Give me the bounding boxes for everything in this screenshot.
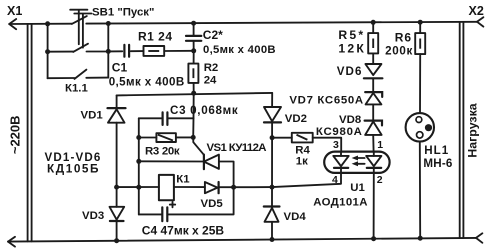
junction dot VD5 right	[231, 185, 236, 190]
wire R2 leads	[193, 51, 195, 93]
switch SB1 actuator	[70, 10, 91, 48]
svg-text:C1: C1	[112, 61, 128, 75]
terminal X2 fork	[477, 17, 483, 26]
junction dot	[106, 21, 111, 26]
svg-text:К1.1: К1.1	[65, 83, 88, 95]
svg-text:VD3: VD3	[82, 210, 104, 222]
neon lamp HL1	[406, 113, 434, 141]
svg-text:X2: X2	[469, 4, 484, 18]
svg-text:VD2: VD2	[285, 113, 307, 125]
svg-text:VD7 КС650А: VD7 КС650А	[289, 94, 363, 106]
svg-text:C4 47мк x 25В: C4 47мк x 25В	[142, 223, 225, 237]
wire right load double line	[460, 22, 464, 238]
svg-text:12К: 12К	[338, 41, 366, 55]
junction dot K1 row x=138.8	[136, 185, 141, 190]
svg-text:VD4: VD4	[284, 211, 307, 223]
wire row2	[48, 50, 194, 53]
svg-text:R3 20к: R3 20к	[145, 146, 180, 158]
junction dot R5 top	[371, 20, 376, 25]
svg-text:~220В: ~220В	[8, 115, 23, 154]
svg-text:R2: R2	[204, 62, 219, 74]
svg-text:X1: X1	[7, 4, 22, 18]
svg-text:C2*: C2*	[203, 28, 223, 42]
junction dot R3 left	[136, 135, 141, 140]
wire K1 row	[117, 186, 272, 188]
junction dot mid rail	[191, 91, 196, 96]
wire lamp bottom	[419, 142, 421, 239]
junction dot VS1 row left	[136, 159, 141, 164]
junction dot R4 tap	[270, 135, 275, 140]
svg-text:R1 24: R1 24	[138, 30, 173, 44]
junction dot bridge left / K1 row	[114, 185, 119, 190]
terminal bottom-right fork	[476, 233, 482, 243]
junction dot R3 right	[191, 135, 196, 140]
wire VS1 row	[139, 161, 234, 187]
svg-text:КС980А: КС980А	[316, 126, 363, 138]
wire VD8 to U1 pin1	[372, 135, 374, 152]
terminal bottom-left arrow	[8, 237, 15, 247]
diode VD6	[365, 64, 381, 75]
resistor R6	[415, 33, 425, 54]
svg-text:C3 0,068мк: C3 0,068мк	[170, 104, 238, 117]
svg-text:SB1 "Пуск": SB1 "Пуск"	[92, 6, 154, 18]
svg-text:1: 1	[377, 139, 383, 151]
optocoupler U1 right diode	[373, 152, 375, 173]
wire C3 loop	[139, 117, 194, 119]
svg-text:3: 3	[333, 139, 339, 151]
diode VD2	[271, 93, 273, 107]
wire VD6-VD7	[372, 78, 374, 92]
zener VD8	[365, 121, 382, 126]
svg-text:VD8: VD8	[339, 114, 361, 126]
wire R6 to lamp	[419, 54, 421, 113]
wire VD1-VD3	[116, 123, 118, 207]
svg-text:HL1: HL1	[424, 144, 449, 157]
switch SB1 contact 2	[73, 44, 88, 52]
svg-text:R6: R6	[395, 30, 412, 44]
svg-text:МН-6: МН-6	[423, 157, 452, 170]
diode VD3	[110, 207, 125, 220]
lamp gas dot	[425, 124, 432, 131]
resistor R3	[156, 133, 176, 142]
wire mid rail	[117, 93, 273, 96]
node A vertical x=47	[47, 24, 49, 78]
thyristor VS1 gate wire	[193, 137, 204, 154]
junction dot	[191, 21, 196, 26]
wire R3 leads	[139, 136, 193, 138]
junction dot	[45, 21, 50, 26]
junction dot pin2 bottom	[371, 236, 376, 241]
svg-text:КД105Б: КД105Б	[47, 161, 100, 175]
lamp electrode top	[416, 117, 422, 123]
svg-text:К1: К1	[176, 174, 190, 186]
capacitor C4	[162, 207, 167, 221]
resistor R4	[292, 133, 313, 143]
wire bottom rail	[8, 238, 476, 242]
junction dot VD3 bottom	[114, 238, 119, 243]
terminal X1 arrow	[9, 19, 16, 29]
relay contact K1.1 wire loop	[48, 77, 109, 80]
relay coil K1	[159, 175, 174, 200]
wire U1 pin2	[373, 173, 375, 239]
diode VD5	[205, 182, 218, 193]
wire C2 branch vertical below mid rail	[192, 93, 195, 137]
wire R5-VD6	[372, 53, 374, 64]
optocoupler U1 left diode	[340, 152, 342, 173]
svg-text:Нагрузка: Нагрузка	[466, 103, 480, 157]
wire left mains double line	[28, 24, 32, 241]
capacitor C4 plus sign	[170, 202, 175, 207]
zener VD7	[365, 92, 382, 97]
thyristor VS1	[203, 155, 205, 170]
svg-text:VD5: VD5	[201, 198, 224, 210]
svg-text:АОД101А: АОД101А	[313, 196, 368, 208]
wire R5 top	[372, 22, 374, 33]
wire R6 top	[419, 22, 421, 33]
capacitor C1	[124, 45, 129, 57]
resistor R2	[188, 64, 198, 83]
diode VD1	[116, 95, 118, 107]
svg-text:1к: 1к	[296, 155, 308, 167]
capacitor C3	[163, 112, 168, 125]
svg-text:2: 2	[377, 174, 383, 186]
wire top rail	[9, 22, 477, 24]
relay contact K1.1 blade	[75, 70, 87, 79]
svg-text:24: 24	[204, 75, 217, 87]
svg-text:VD1: VD1	[81, 109, 104, 121]
svg-text:200к: 200к	[385, 45, 413, 58]
junction dot VD4 bottom	[270, 237, 275, 242]
junction dot lamp bottom	[418, 236, 423, 241]
svg-text:0,5мк x 400В: 0,5мк x 400В	[109, 76, 185, 89]
wire VD2-VD4	[271, 122, 273, 205]
wire C2 leads	[193, 23, 195, 51]
junction dot	[45, 49, 50, 54]
junction dot pin4 row	[270, 185, 275, 190]
diode VD4	[264, 205, 280, 207]
lamp electrode bottom	[417, 132, 423, 138]
svg-text:R5*: R5*	[338, 28, 365, 42]
wire left mid vertical x=138.8	[138, 118, 140, 214]
junction dot R6 top	[418, 20, 423, 25]
wire C4 loop	[139, 187, 234, 214]
wire R4 leads	[272, 138, 341, 152]
optocoupler U1 arrows	[355, 157, 364, 159]
optocoupler U1 body	[324, 152, 389, 173]
node B vertical x=108	[107, 24, 109, 78]
junction dot row2/C2	[191, 48, 196, 53]
switch SB1 contact 1	[72, 16, 87, 24]
capacitor C2	[186, 36, 201, 41]
wire VD7-VD8	[372, 104, 374, 120]
junction dot	[106, 49, 111, 54]
resistor R5	[368, 33, 378, 53]
svg-text:0,5мк x 400В: 0,5мк x 400В	[203, 44, 276, 56]
svg-text:VD6: VD6	[337, 65, 363, 78]
wire U1 pin4	[272, 173, 341, 187]
svg-text:VS1 КУ112А: VS1 КУ112А	[207, 142, 267, 154]
resistor R1	[144, 46, 165, 56]
svg-text:U1: U1	[350, 182, 365, 194]
